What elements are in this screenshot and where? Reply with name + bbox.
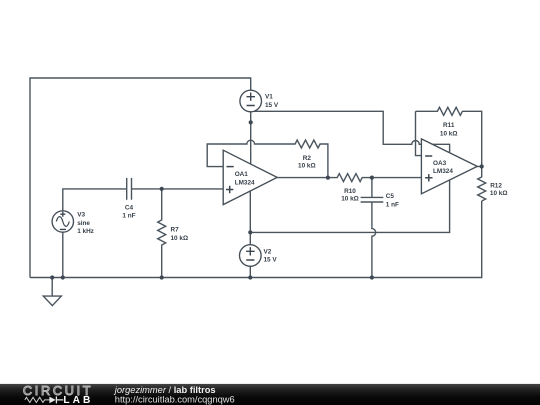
svg-text:LM324: LM324 <box>433 168 453 175</box>
svg-text:R12: R12 <box>490 182 502 189</box>
svg-text:1 nF: 1 nF <box>386 201 399 208</box>
svg-text:R7: R7 <box>171 227 180 234</box>
svg-text:R10: R10 <box>344 188 356 195</box>
svg-text:10 kΩ: 10 kΩ <box>490 190 508 197</box>
svg-text:1 kHz: 1 kHz <box>77 228 94 235</box>
svg-text:LM324: LM324 <box>235 179 255 186</box>
svg-text:C4: C4 <box>125 204 134 211</box>
svg-text:jorgezimmer / lab filtros: jorgezimmer / lab filtros <box>113 385 216 395</box>
svg-text:R2: R2 <box>303 155 312 162</box>
svg-text:http://circuitlab.com/cqgnqw6: http://circuitlab.com/cqgnqw6 <box>115 395 235 405</box>
svg-text:R11: R11 <box>443 122 455 129</box>
svg-text:10 kΩ: 10 kΩ <box>171 235 189 242</box>
svg-text:V1: V1 <box>265 94 273 101</box>
svg-text:10 kΩ: 10 kΩ <box>341 196 359 203</box>
svg-text:C5: C5 <box>386 193 395 200</box>
svg-text:10 kΩ: 10 kΩ <box>298 163 316 170</box>
svg-text:V2: V2 <box>264 248 272 255</box>
svg-text:15 V: 15 V <box>264 257 278 264</box>
svg-text:1 nF: 1 nF <box>122 213 135 220</box>
svg-text:OA1: OA1 <box>235 171 249 178</box>
svg-text:sine: sine <box>77 220 90 227</box>
svg-text:LAB: LAB <box>63 395 93 405</box>
svg-text:15 V: 15 V <box>265 102 279 109</box>
svg-text:OA3: OA3 <box>433 160 447 167</box>
svg-text:10 kΩ: 10 kΩ <box>440 130 458 137</box>
svg-text:V3: V3 <box>77 212 85 219</box>
